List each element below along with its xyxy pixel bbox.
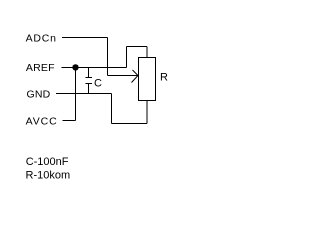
wiper arrowhead of potentiometer R: [132, 70, 139, 83]
capacitor C top stub: [88, 68, 90, 78]
wire GND riser: [111, 94, 113, 124]
svg-text:ADCn: ADCn: [26, 32, 57, 44]
svg-text:AVCC: AVCC: [26, 116, 58, 128]
wire AVCC horizontal: [63, 120, 76, 122]
capacitor C bottom plate: [86, 83, 93, 85]
svg-text:C: C: [94, 78, 102, 90]
wire wiper shaft: [108, 75, 139, 77]
wire AREF riser up: [126, 47, 128, 68]
wire ADCn horizontal: [62, 37, 108, 39]
resistor R (potentiometer body): [139, 58, 156, 101]
capacitor C bottom stub: [88, 84, 90, 95]
svg-text:R-10kom: R-10kom: [26, 170, 71, 182]
wire stub to resistor top: [146, 47, 148, 58]
wire bottom rail: [112, 123, 148, 125]
svg-text:AREF: AREF: [26, 62, 55, 74]
wire GND horizontal: [56, 93, 112, 95]
capacitor C top plate: [86, 77, 93, 79]
svg-text:R: R: [160, 72, 168, 84]
junction dot at AREF node: [72, 64, 78, 70]
wire AREF horizontal: [62, 67, 127, 69]
wire top jog horizontal: [127, 46, 148, 48]
svg-text:GND: GND: [27, 88, 51, 100]
wire ADCn riser vertical: [107, 38, 109, 76]
wire AREF to AVCC vertical: [75, 68, 77, 121]
svg-text:C-100nF: C-100nF: [26, 156, 69, 168]
wire stub from resistor bottom: [146, 101, 148, 124]
